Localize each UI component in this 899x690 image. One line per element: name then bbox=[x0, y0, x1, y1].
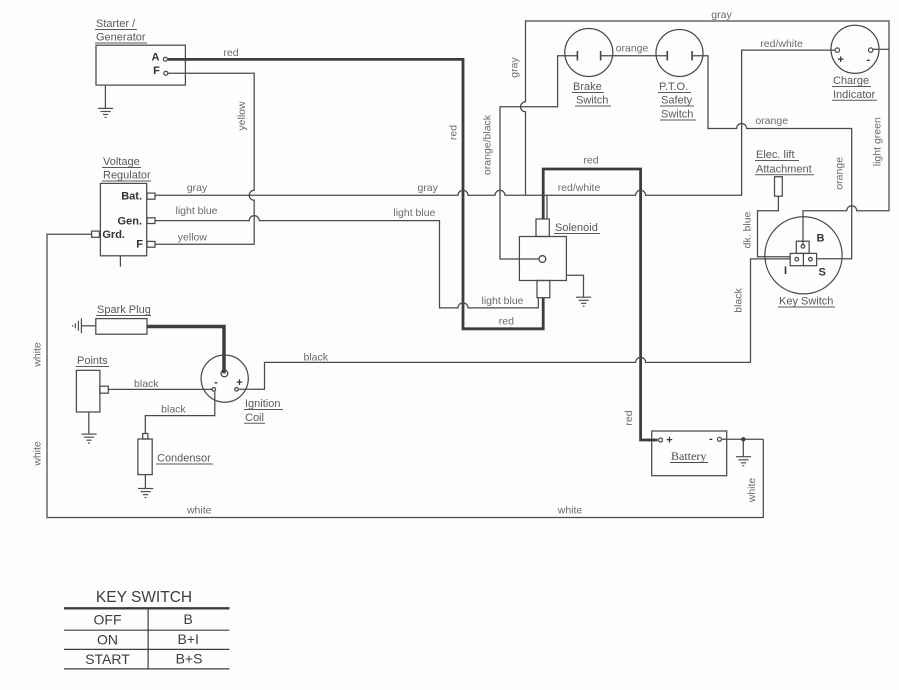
svg-text:Attachment: Attachment bbox=[756, 163, 812, 175]
svg-text:black: black bbox=[134, 378, 159, 390]
svg-text:+: + bbox=[837, 54, 843, 66]
svg-text:yellow: yellow bbox=[178, 232, 208, 244]
wire black: key switch I to ignition coil plus bbox=[238, 259, 790, 389]
svg-text:Voltage: Voltage bbox=[103, 156, 140, 168]
svg-text:Charge: Charge bbox=[833, 75, 869, 87]
svg-text:Spark Plug: Spark Plug bbox=[97, 304, 151, 316]
svg-text:Bat.: Bat. bbox=[121, 191, 142, 203]
svg-text:orange/black: orange/black bbox=[482, 114, 494, 175]
wire gray/red-white main horizontal: regulator Bat to charge indicator plus bbox=[155, 50, 835, 195]
svg-text:Elec. lift: Elec. lift bbox=[756, 149, 795, 161]
svg-text:Switch: Switch bbox=[576, 95, 608, 107]
svg-text:red: red bbox=[623, 410, 635, 425]
battery BAT bbox=[652, 431, 727, 476]
svg-text:+: + bbox=[666, 435, 672, 447]
svg-text:Brake: Brake bbox=[573, 81, 602, 93]
spark plug SP bbox=[96, 304, 151, 334]
svg-text:Ignition: Ignition bbox=[245, 398, 280, 410]
svg-text:Points: Points bbox=[77, 355, 108, 367]
svg-text:black: black bbox=[161, 403, 186, 415]
ground (solenoid) bbox=[576, 297, 591, 306]
svg-text:Switch: Switch bbox=[661, 109, 693, 121]
wire gray top: vertical riser to top rail, over to right side bbox=[521, 21, 890, 246]
svg-text:red: red bbox=[223, 47, 238, 59]
svg-text:ON: ON bbox=[97, 632, 118, 648]
wire battery minus to white/ground junction bbox=[722, 438, 764, 440]
wire red/white stub: solenoid top terminal up to main horizontal bbox=[546, 195, 548, 219]
svg-text:red: red bbox=[499, 316, 514, 328]
svg-text:B+S: B+S bbox=[176, 651, 203, 667]
wire dk. blue: elec lift to key switch I bbox=[758, 196, 791, 257]
spark plug high-tension wire (thick) bbox=[147, 327, 224, 374]
svg-text:A: A bbox=[152, 52, 160, 64]
condensor C bbox=[138, 434, 213, 475]
wire solenoid case to ground bbox=[566, 275, 583, 297]
svg-text:light green: light green bbox=[872, 117, 884, 166]
svg-text:KEY SWITCH: KEY SWITCH bbox=[96, 589, 192, 606]
svg-text:-: - bbox=[866, 54, 870, 66]
wire thick red: solenoid top to battery plus bbox=[543, 169, 657, 440]
svg-text:gray: gray bbox=[187, 182, 208, 194]
svg-text:gray: gray bbox=[509, 57, 521, 78]
svg-text:light blue: light blue bbox=[175, 205, 217, 217]
svg-text:Solenoid: Solenoid bbox=[555, 222, 598, 234]
key switch legend table bbox=[64, 589, 230, 669]
svg-text:red/white: red/white bbox=[558, 182, 601, 194]
svg-text:white: white bbox=[31, 441, 43, 467]
wire black: condensor to ignition coil minus bbox=[145, 391, 215, 433]
voltage regulator VR bbox=[92, 156, 155, 267]
elec. lift attachment ELA bbox=[755, 149, 814, 196]
svg-text:Coil: Coil bbox=[245, 412, 264, 424]
ground (battery) bbox=[736, 439, 751, 465]
svg-text:Grd.: Grd. bbox=[102, 229, 125, 241]
svg-text:Generator: Generator bbox=[96, 32, 146, 44]
svg-text:START: START bbox=[85, 651, 130, 667]
svg-text:Condensor: Condensor bbox=[157, 453, 211, 465]
svg-text:red: red bbox=[448, 125, 460, 140]
svg-text:red: red bbox=[583, 155, 598, 167]
svg-text:-: - bbox=[709, 433, 713, 445]
svg-text:orange: orange bbox=[755, 115, 788, 127]
wire orange: brake switch to PTO switch bbox=[601, 55, 668, 57]
P.T.O. safety switch PTO bbox=[656, 30, 703, 121]
svg-text:Gen.: Gen. bbox=[118, 215, 142, 227]
svg-text:F: F bbox=[153, 65, 160, 77]
wire thick red: starter A to solenoid bottom bbox=[168, 59, 543, 328]
svg-text:Indicator: Indicator bbox=[833, 89, 876, 101]
svg-text:orange: orange bbox=[834, 157, 846, 190]
ground (condensor) bbox=[138, 475, 153, 498]
svg-text:white: white bbox=[557, 505, 583, 517]
ground (spark plug, rotated) bbox=[73, 318, 96, 333]
svg-text:B: B bbox=[184, 611, 193, 627]
wire light blue: regulator Gen to solenoid bottom bbox=[155, 216, 538, 308]
svg-text:I: I bbox=[784, 265, 787, 277]
brake switch BS bbox=[565, 29, 613, 107]
wire stub charge indicator minus bbox=[873, 48, 889, 50]
svg-text:-: - bbox=[214, 377, 218, 389]
svg-text:Battery: Battery bbox=[671, 449, 706, 463]
wire orange/black: brake switch left down to solenoid trigger bbox=[500, 56, 577, 259]
svg-text:B+I: B+I bbox=[177, 631, 198, 647]
svg-text:Regulator: Regulator bbox=[103, 170, 151, 182]
starter/generator SG bbox=[95, 18, 185, 85]
charge indicator CI bbox=[831, 25, 879, 101]
svg-text:P.T.O.: P.T.O. bbox=[659, 81, 688, 93]
ground (points) bbox=[81, 412, 96, 443]
svg-text:white: white bbox=[31, 342, 43, 368]
ignition coil IC bbox=[201, 355, 283, 424]
wire black: points to ignition coil minus bbox=[108, 388, 212, 390]
svg-text:gray: gray bbox=[711, 9, 732, 21]
svg-text:light blue: light blue bbox=[393, 207, 435, 219]
key switch KS bbox=[765, 217, 842, 308]
svg-text:black: black bbox=[303, 352, 328, 364]
wire yellow: starter F down to regulator F bbox=[155, 73, 254, 244]
svg-text:white: white bbox=[186, 505, 212, 517]
junction dot bbox=[741, 437, 745, 441]
svg-text:Starter /: Starter / bbox=[96, 18, 136, 30]
svg-text:F: F bbox=[136, 239, 143, 251]
svg-text:orange: orange bbox=[616, 43, 649, 55]
svg-text:red/white: red/white bbox=[760, 38, 803, 50]
ground (starter/generator) bbox=[98, 85, 113, 117]
svg-text:Safety: Safety bbox=[661, 95, 693, 107]
wire white: regulator Grd down along left, bottom, up to battery minus bbox=[47, 234, 763, 517]
svg-text:OFF: OFF bbox=[94, 612, 122, 628]
svg-text:light blue: light blue bbox=[481, 295, 523, 307]
wire orange: PTO switch to key switch S bbox=[692, 56, 852, 259]
svg-text:yellow: yellow bbox=[236, 101, 248, 131]
svg-text:dk. blue: dk. blue bbox=[742, 211, 754, 248]
solenoid SOL bbox=[519, 219, 600, 298]
svg-text:gray: gray bbox=[417, 182, 438, 194]
svg-text:white: white bbox=[746, 478, 758, 504]
svg-text:S: S bbox=[819, 267, 826, 279]
svg-text:black: black bbox=[733, 287, 745, 312]
svg-text:Key Switch: Key Switch bbox=[779, 296, 833, 308]
svg-text:B: B bbox=[817, 233, 825, 245]
points P bbox=[76, 355, 109, 412]
